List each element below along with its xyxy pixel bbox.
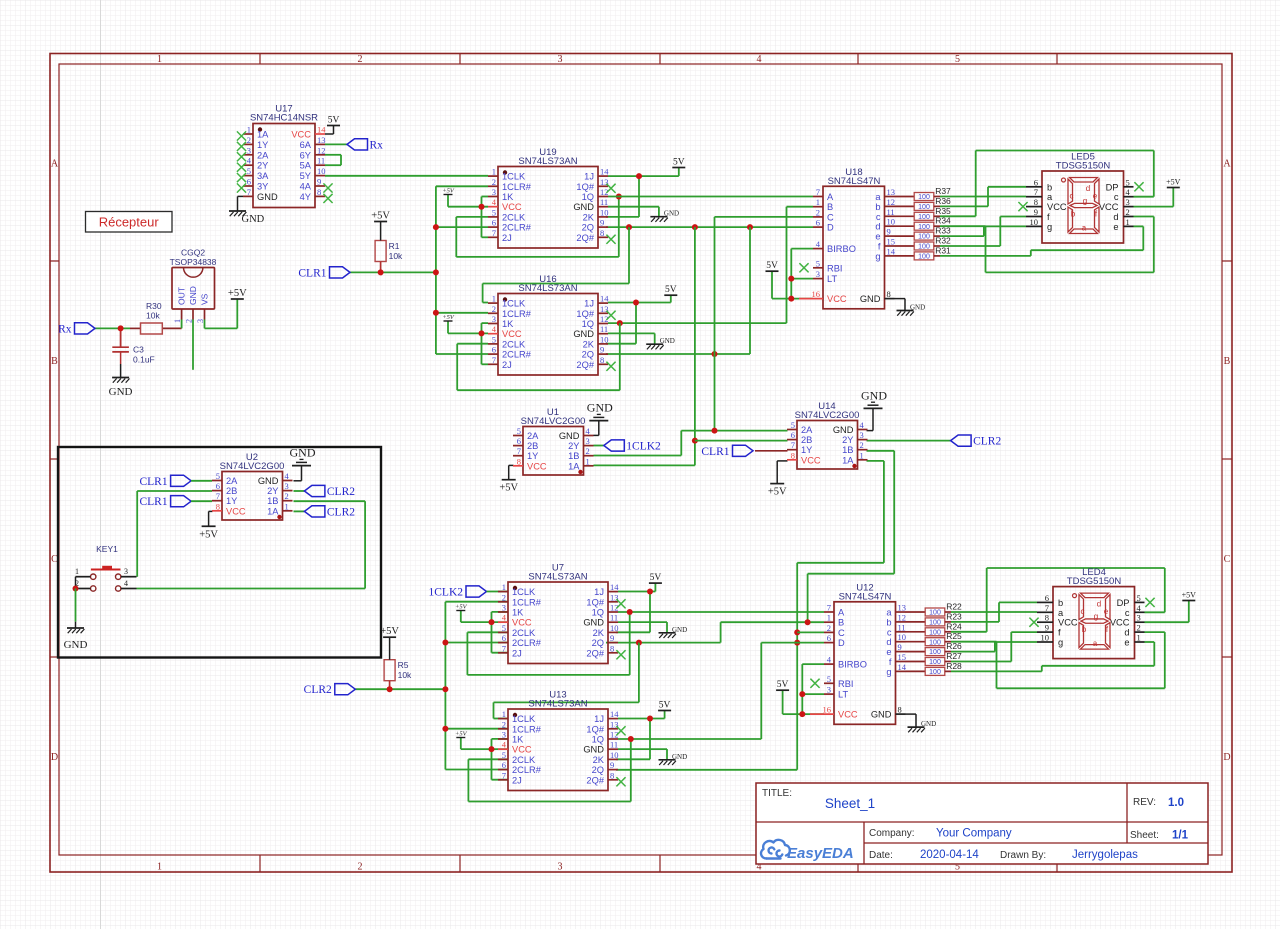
svg-text:2: 2	[1126, 207, 1130, 217]
svg-text:VCC: VCC	[226, 506, 246, 516]
svg-text:100: 100	[929, 639, 941, 646]
svg-text:3: 3	[827, 685, 831, 695]
svg-text:2K: 2K	[593, 755, 605, 765]
svg-text:6: 6	[827, 633, 831, 643]
svg-text:a: a	[1058, 608, 1064, 618]
svg-text:6: 6	[247, 177, 251, 187]
svg-text:R30: R30	[146, 301, 162, 311]
svg-text:14: 14	[887, 246, 896, 256]
svg-text:1CLR#: 1CLR#	[512, 724, 542, 734]
svg-text:15: 15	[887, 237, 896, 247]
svg-text:5: 5	[502, 623, 506, 633]
svg-text:SN74LS73AN: SN74LS73AN	[528, 699, 587, 710]
svg-text:LT: LT	[827, 274, 837, 284]
svg-text:f: f	[889, 657, 892, 667]
svg-text:b: b	[1058, 598, 1063, 608]
svg-text:Récepteur: Récepteur	[99, 215, 160, 230]
svg-text:D: D	[827, 223, 834, 233]
svg-text:c: c	[887, 627, 892, 637]
svg-text:f: f	[878, 242, 881, 252]
svg-text:5: 5	[1137, 593, 1141, 603]
svg-text:3: 3	[1137, 613, 1141, 623]
svg-text:Sheet:: Sheet:	[1130, 830, 1159, 841]
svg-text:3: 3	[558, 862, 563, 873]
svg-text:+5V: +5V	[228, 288, 247, 299]
svg-text:CLR2: CLR2	[327, 486, 355, 498]
svg-text:2CLR#: 2CLR#	[502, 223, 532, 233]
svg-text:11: 11	[610, 613, 618, 623]
svg-text:1Q: 1Q	[582, 319, 594, 329]
svg-text:5: 5	[247, 166, 251, 176]
svg-text:1: 1	[247, 125, 251, 135]
svg-text:5: 5	[955, 54, 960, 65]
svg-text:2Q: 2Q	[582, 350, 594, 360]
svg-text:2Q#: 2Q#	[586, 775, 604, 785]
svg-text:2Y: 2Y	[842, 435, 853, 445]
svg-text:8: 8	[517, 456, 521, 466]
svg-text:b: b	[1082, 625, 1087, 634]
svg-text:a: a	[1047, 192, 1053, 202]
svg-text:2Y: 2Y	[267, 486, 278, 496]
svg-text:R5: R5	[398, 660, 409, 670]
svg-text:1A: 1A	[842, 455, 854, 465]
svg-text:16: 16	[823, 705, 832, 715]
svg-text:5V: 5V	[777, 680, 789, 690]
svg-text:g: g	[1058, 638, 1063, 648]
svg-text:Date:: Date:	[869, 850, 893, 861]
svg-text:2K: 2K	[583, 212, 595, 222]
svg-text:2J: 2J	[502, 233, 512, 243]
svg-text:3: 3	[1126, 197, 1130, 207]
svg-text:5V: 5V	[766, 261, 778, 271]
svg-text:EasyEDA: EasyEDA	[787, 845, 854, 862]
svg-text:6: 6	[492, 345, 496, 355]
svg-text:1B: 1B	[842, 445, 853, 455]
svg-text:1CLK: 1CLK	[512, 714, 536, 724]
svg-text:d: d	[1113, 212, 1118, 222]
svg-text:5: 5	[791, 420, 795, 430]
svg-text:4: 4	[124, 579, 128, 588]
svg-text:GND: GND	[833, 425, 854, 435]
svg-text:6: 6	[492, 218, 496, 228]
svg-text:R35: R35	[935, 206, 951, 216]
svg-text:1Y: 1Y	[226, 496, 237, 506]
svg-text:VCC: VCC	[502, 202, 522, 212]
svg-text:2K: 2K	[593, 628, 605, 638]
svg-text:100: 100	[918, 204, 930, 211]
svg-text:d: d	[1086, 184, 1090, 193]
svg-text:8: 8	[600, 355, 604, 365]
svg-text:3: 3	[816, 269, 820, 279]
svg-text:8: 8	[1045, 613, 1049, 623]
svg-text:g: g	[1047, 222, 1052, 232]
svg-text:1Q#: 1Q#	[576, 182, 594, 192]
svg-text:+5V: +5V	[199, 529, 218, 540]
svg-text:d: d	[886, 637, 891, 647]
svg-text:10k: 10k	[389, 251, 403, 261]
svg-text:2: 2	[358, 54, 363, 65]
svg-text:13: 13	[887, 187, 896, 197]
svg-text:2: 2	[860, 440, 864, 450]
svg-text:C: C	[838, 628, 845, 638]
svg-text:5V: 5V	[673, 158, 685, 168]
svg-text:GND: GND	[921, 720, 936, 728]
svg-text:100: 100	[929, 669, 941, 676]
svg-text:1CLK: 1CLK	[502, 172, 526, 182]
svg-text:2Y: 2Y	[568, 441, 579, 451]
svg-text:1/1: 1/1	[1172, 830, 1189, 842]
svg-text:10: 10	[887, 217, 896, 227]
svg-text:11: 11	[317, 156, 325, 166]
svg-text:2A: 2A	[527, 431, 539, 441]
svg-text:CGQ2: CGQ2	[181, 248, 205, 258]
svg-text:10: 10	[898, 632, 907, 642]
svg-text:GND: GND	[290, 446, 316, 460]
svg-text:14: 14	[898, 662, 907, 672]
svg-text:2: 2	[247, 135, 251, 145]
svg-text:c: c	[1070, 192, 1074, 201]
svg-text:1: 1	[1126, 217, 1130, 227]
svg-text:4Y: 4Y	[300, 192, 311, 202]
svg-text:CLR2: CLR2	[327, 506, 355, 518]
svg-text:A: A	[1223, 159, 1231, 170]
svg-text:2J: 2J	[512, 775, 522, 785]
svg-text:9: 9	[610, 760, 614, 770]
svg-text:7: 7	[492, 355, 496, 365]
svg-text:3: 3	[502, 603, 506, 613]
svg-text:14: 14	[610, 709, 619, 719]
svg-text:11: 11	[600, 324, 608, 334]
svg-text:9: 9	[887, 227, 891, 237]
svg-text:SN74LVC2G00: SN74LVC2G00	[220, 461, 285, 472]
svg-text:VCC: VCC	[1110, 618, 1130, 628]
svg-text:15: 15	[898, 652, 907, 662]
svg-text:c: c	[1114, 192, 1119, 202]
svg-text:5: 5	[827, 674, 831, 684]
svg-text:TITLE:: TITLE:	[762, 788, 792, 799]
svg-text:f: f	[1058, 628, 1061, 638]
svg-text:6: 6	[1045, 593, 1049, 603]
svg-text:3: 3	[558, 54, 563, 65]
svg-text:1Y: 1Y	[257, 140, 268, 150]
svg-text:2CLK: 2CLK	[502, 339, 526, 349]
svg-text:+5V: +5V	[455, 731, 468, 738]
svg-text:100: 100	[918, 244, 930, 251]
svg-text:7: 7	[492, 228, 496, 238]
svg-text:REV:: REV:	[1133, 797, 1156, 808]
svg-text:10: 10	[600, 334, 609, 344]
svg-text:5: 5	[816, 258, 820, 268]
svg-text:10k: 10k	[398, 670, 412, 680]
svg-text:A: A	[51, 159, 59, 170]
svg-text:10: 10	[1030, 217, 1039, 227]
svg-text:B: B	[1224, 356, 1231, 367]
svg-text:100: 100	[918, 234, 930, 241]
svg-text:1CLK: 1CLK	[502, 299, 526, 309]
svg-text:11: 11	[898, 622, 906, 632]
svg-text:10: 10	[600, 207, 609, 217]
svg-text:R23: R23	[946, 611, 962, 621]
svg-text:1: 1	[586, 456, 590, 466]
svg-text:7: 7	[791, 440, 795, 450]
svg-text:+5V: +5V	[768, 487, 787, 498]
svg-text:SN74LVC2G00: SN74LVC2G00	[795, 410, 860, 421]
svg-text:2Q#: 2Q#	[576, 233, 594, 243]
svg-text:D: D	[838, 638, 845, 648]
svg-text:Rx: Rx	[58, 323, 72, 335]
svg-text:2J: 2J	[502, 360, 512, 370]
svg-text:VCC: VCC	[1058, 618, 1078, 628]
svg-text:8: 8	[216, 501, 220, 511]
svg-text:C3: C3	[133, 345, 144, 355]
svg-text:GND: GND	[64, 639, 88, 651]
svg-text:DP: DP	[1117, 598, 1130, 608]
svg-text:1: 1	[157, 54, 162, 65]
svg-text:GND: GND	[583, 745, 604, 755]
svg-text:g: g	[875, 251, 880, 261]
svg-text:d: d	[1097, 600, 1101, 609]
svg-text:2CLR#: 2CLR#	[502, 350, 532, 360]
svg-text:9: 9	[898, 642, 902, 652]
svg-text:CLR1: CLR1	[139, 476, 167, 488]
svg-text:e: e	[1104, 607, 1109, 616]
svg-text:7: 7	[1034, 187, 1038, 197]
svg-text:D: D	[1223, 752, 1230, 763]
svg-text:5V: 5V	[328, 116, 340, 126]
svg-text:7: 7	[216, 491, 220, 501]
svg-text:3: 3	[247, 145, 251, 155]
svg-text:e: e	[886, 647, 891, 657]
svg-text:+5V: +5V	[455, 604, 468, 611]
svg-text:2CLK: 2CLK	[512, 755, 536, 765]
svg-text:5: 5	[502, 750, 506, 760]
svg-text:3: 3	[502, 730, 506, 740]
svg-text:1: 1	[157, 862, 162, 873]
svg-text:GND: GND	[559, 431, 580, 441]
svg-text:R1: R1	[389, 241, 400, 251]
svg-text:1K: 1K	[512, 735, 524, 745]
svg-text:10: 10	[317, 166, 326, 176]
svg-text:Rx: Rx	[370, 139, 384, 151]
svg-text:g: g	[1094, 612, 1098, 621]
svg-text:Drawn By:: Drawn By:	[1000, 850, 1046, 861]
svg-text:1: 1	[75, 567, 79, 576]
svg-text:+5V: +5V	[442, 314, 455, 321]
svg-text:SN74LVC2G00: SN74LVC2G00	[521, 416, 586, 427]
svg-text:6: 6	[1034, 177, 1038, 187]
svg-text:VCC: VCC	[801, 455, 821, 465]
svg-text:5V: 5V	[650, 573, 662, 583]
svg-text:d: d	[1124, 628, 1129, 638]
svg-text:GND: GND	[871, 710, 892, 720]
svg-text:e: e	[875, 232, 880, 242]
svg-text:2Y: 2Y	[257, 161, 268, 171]
svg-text:CLR1: CLR1	[139, 496, 167, 508]
svg-text:1: 1	[502, 582, 506, 592]
svg-text:2: 2	[586, 446, 590, 456]
svg-text:1: 1	[827, 613, 831, 623]
svg-text:1CLR#: 1CLR#	[502, 182, 532, 192]
svg-text:VCC: VCC	[1099, 202, 1119, 212]
svg-text:5V: 5V	[659, 701, 671, 711]
svg-text:2Q#: 2Q#	[576, 360, 594, 370]
svg-text:2: 2	[502, 592, 506, 602]
svg-text:14: 14	[600, 167, 609, 177]
svg-text:CLR2: CLR2	[973, 436, 1001, 448]
svg-text:3A: 3A	[257, 171, 269, 181]
svg-text:Your Company: Your Company	[936, 828, 1012, 840]
svg-text:8: 8	[1034, 197, 1038, 207]
svg-text:5: 5	[1126, 177, 1130, 187]
svg-text:1J: 1J	[584, 172, 594, 182]
svg-text:11: 11	[610, 740, 618, 750]
svg-text:4A: 4A	[300, 182, 312, 192]
svg-text:1CLR#: 1CLR#	[512, 597, 542, 607]
svg-text:1: 1	[816, 197, 820, 207]
svg-text:VCC: VCC	[827, 294, 847, 304]
svg-text:1J: 1J	[594, 714, 604, 724]
svg-text:c: c	[1125, 608, 1130, 618]
svg-text:+5V: +5V	[1182, 591, 1197, 600]
svg-text:2: 2	[1137, 623, 1141, 633]
svg-text:1K: 1K	[502, 192, 514, 202]
svg-text:7: 7	[816, 187, 820, 197]
svg-text:Jerrygolepas: Jerrygolepas	[1072, 849, 1138, 861]
svg-text:GND: GND	[860, 294, 881, 304]
svg-text:9: 9	[600, 218, 604, 228]
svg-text:SN74LS73AN: SN74LS73AN	[528, 572, 587, 583]
svg-text:RBI: RBI	[838, 679, 854, 689]
svg-text:GND: GND	[672, 753, 687, 761]
svg-text:6: 6	[517, 436, 521, 446]
svg-text:100: 100	[918, 224, 930, 231]
svg-text:CLR1: CLR1	[701, 446, 729, 458]
svg-text:1K: 1K	[502, 319, 514, 329]
svg-text:GND: GND	[109, 386, 133, 398]
svg-text:100: 100	[929, 649, 941, 656]
svg-text:DP: DP	[1106, 182, 1119, 192]
svg-text:2: 2	[502, 719, 506, 729]
svg-text:7: 7	[517, 446, 521, 456]
svg-text:1Q#: 1Q#	[586, 724, 604, 734]
svg-text:100: 100	[929, 620, 941, 627]
svg-text:c: c	[1081, 607, 1085, 616]
svg-text:D: D	[51, 752, 58, 763]
svg-text:1: 1	[492, 294, 496, 304]
svg-text:2CLK: 2CLK	[512, 628, 536, 638]
svg-text:VS: VS	[200, 293, 210, 305]
svg-text:TDSG5150N: TDSG5150N	[1056, 161, 1111, 172]
svg-text:2: 2	[827, 623, 831, 633]
svg-text:2: 2	[816, 207, 820, 217]
svg-text:2: 2	[492, 304, 496, 314]
svg-text:GND: GND	[257, 192, 278, 202]
svg-text:RBI: RBI	[827, 263, 843, 273]
svg-text:1CLK2: 1CLK2	[626, 441, 661, 453]
svg-text:1Q#: 1Q#	[586, 597, 604, 607]
svg-text:2Q: 2Q	[592, 638, 604, 648]
svg-text:GND: GND	[910, 304, 925, 312]
svg-text:1: 1	[502, 709, 506, 719]
svg-text:SN74LS47N: SN74LS47N	[828, 176, 881, 187]
svg-text:100: 100	[929, 629, 941, 636]
svg-text:b: b	[1071, 210, 1076, 219]
svg-text:GND: GND	[188, 286, 198, 305]
svg-text:R37: R37	[935, 186, 951, 196]
svg-text:1J: 1J	[584, 299, 594, 309]
svg-text:12: 12	[887, 197, 896, 207]
svg-text:g: g	[886, 667, 891, 677]
svg-text:BIRBO: BIRBO	[838, 660, 867, 670]
svg-text:1B: 1B	[267, 496, 278, 506]
svg-text:2A: 2A	[257, 150, 269, 160]
svg-text:f: f	[1047, 212, 1050, 222]
svg-text:1A: 1A	[267, 506, 279, 516]
svg-text:5: 5	[517, 426, 521, 436]
svg-text:5A: 5A	[300, 161, 312, 171]
svg-text:R25: R25	[946, 631, 962, 641]
svg-text:1A: 1A	[257, 130, 269, 140]
svg-text:4: 4	[757, 54, 762, 65]
svg-text:8: 8	[600, 228, 604, 238]
svg-text:8: 8	[791, 450, 795, 460]
svg-text:B: B	[51, 356, 58, 367]
svg-text:2: 2	[285, 491, 289, 501]
svg-text:VCC: VCC	[291, 130, 311, 140]
svg-text:7: 7	[1045, 603, 1049, 613]
svg-text:2Q: 2Q	[582, 223, 594, 233]
svg-text:1: 1	[1137, 633, 1141, 643]
svg-text:1: 1	[492, 167, 496, 177]
svg-text:5: 5	[492, 334, 496, 344]
svg-text:100: 100	[918, 254, 930, 261]
svg-text:+5V: +5V	[380, 626, 399, 637]
svg-text:6: 6	[791, 430, 795, 440]
svg-text:2B: 2B	[527, 441, 538, 451]
svg-text:10: 10	[610, 750, 619, 760]
svg-text:Sheet_1: Sheet_1	[825, 796, 875, 811]
svg-text:9: 9	[1045, 623, 1049, 633]
svg-text:9: 9	[317, 177, 321, 187]
svg-text:9: 9	[1034, 207, 1038, 217]
svg-text:GND: GND	[664, 210, 679, 218]
svg-text:0.1uF: 0.1uF	[133, 355, 155, 365]
svg-text:6: 6	[216, 481, 220, 491]
svg-text:6Y: 6Y	[300, 150, 311, 160]
svg-text:14: 14	[317, 125, 326, 135]
svg-text:3Y: 3Y	[257, 182, 268, 192]
svg-text:1J: 1J	[594, 587, 604, 597]
svg-text:5: 5	[492, 207, 496, 217]
svg-text:A: A	[838, 608, 845, 618]
svg-text:2J: 2J	[512, 648, 522, 658]
svg-text:1Q#: 1Q#	[576, 309, 594, 319]
svg-text:LT: LT	[838, 690, 848, 700]
svg-text:Company:: Company:	[869, 828, 915, 839]
svg-text:SN74LS47N: SN74LS47N	[839, 591, 892, 602]
svg-text:a: a	[875, 192, 881, 202]
svg-text:3: 3	[860, 430, 864, 440]
svg-text:GND: GND	[573, 329, 594, 339]
svg-text:1Y: 1Y	[801, 445, 812, 455]
svg-text:1Q: 1Q	[592, 608, 604, 618]
svg-text:R33: R33	[935, 226, 951, 236]
svg-text:1A: 1A	[568, 461, 580, 471]
svg-text:GND: GND	[587, 401, 613, 415]
svg-text:7: 7	[502, 643, 506, 653]
svg-text:9: 9	[610, 633, 614, 643]
svg-text:CLR1: CLR1	[298, 267, 326, 279]
